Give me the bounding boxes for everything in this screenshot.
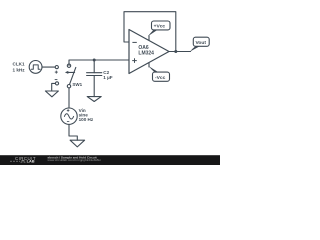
ground (Vin) [70, 140, 85, 147]
ground (control) [45, 91, 58, 97]
capacitor C2 bottom lead [93, 76, 95, 97]
svg-text:www.circuitlab.com/cmrgpgbk44u: www.circuitlab.com/cmrgpgbk44u3k8ki [48, 158, 101, 162]
source Vin sine glyph [64, 114, 73, 119]
switch SW1 bottom terminal [67, 85, 70, 88]
capacitor C2 top lead [93, 60, 95, 73]
label op-amp minus [132, 41, 136, 43]
svg-text:LAB: LAB [27, 159, 35, 164]
wire output [169, 51, 191, 53]
label - (control) [55, 79, 58, 81]
label op-amp plus [132, 58, 137, 63]
wire CLK1 output to switch control + terminal [42, 66, 55, 68]
wire control - terminal to ground [52, 83, 56, 91]
wire Vin bottom to ground [69, 124, 77, 140]
svg-text:1 kHz: 1 kHz [13, 68, 26, 73]
svg-text:CLK1: CLK1 [13, 62, 25, 67]
flag Vout [190, 46, 200, 51]
switch control + terminal [55, 66, 58, 69]
footer bar [0, 155, 220, 165]
junction dot output node [174, 50, 177, 53]
svg-text:LM324: LM324 [138, 51, 154, 57]
label Vin - [67, 121, 69, 123]
source Vin circle [61, 108, 77, 124]
capacitor C2 plates [87, 72, 102, 74]
junction dot node at C2 top [93, 59, 96, 62]
wire feedback: output junction up over to - input [124, 12, 176, 52]
svg-text:Vout: Vout [196, 40, 207, 46]
wire switch bottom to Vin source [68, 88, 70, 108]
flag +Vcc [148, 30, 158, 37]
op-amp OA6 triangle [129, 30, 169, 74]
wire top node: switch top to op-amp + input [69, 60, 129, 66]
label + (control) [55, 71, 58, 74]
switch SW1 top terminal [67, 64, 70, 67]
svg-text:100 Hz: 100 Hz [79, 117, 94, 122]
footer logo LAB waveform [10, 160, 26, 162]
op-amp V+ stub [148, 36, 150, 40]
switch SW1 control arrow [67, 71, 75, 73]
clock source CLK1 circle [29, 61, 42, 74]
svg-text:-Vcc: -Vcc [155, 75, 166, 81]
ground (C2) [87, 97, 101, 102]
op-amp V- stub [148, 63, 150, 67]
svg-text:+Vcc: +Vcc [154, 24, 166, 30]
label Vin + [67, 109, 70, 112]
svg-text:1 µF: 1 µF [103, 75, 112, 80]
svg-text:SW1: SW1 [72, 82, 82, 87]
switch control - terminal [55, 82, 58, 85]
clock source CLK1 square-wave glyph [31, 65, 40, 69]
flag -Vcc [149, 66, 159, 72]
switch SW1 blade [70, 67, 76, 84]
